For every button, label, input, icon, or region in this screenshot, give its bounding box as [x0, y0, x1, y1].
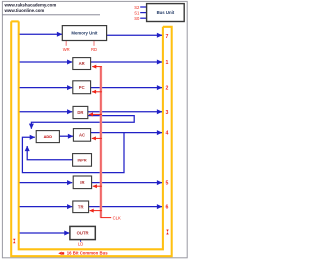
- svg-text:CLK: CLK: [113, 216, 121, 221]
- svg-text:16 Bit Common Bus: 16 Bit Common Bus: [67, 251, 108, 256]
- svg-text:5: 5: [166, 181, 169, 187]
- svg-text:www.tiuonline.com: www.tiuonline.com: [4, 8, 45, 13]
- svg-text:S1: S1: [134, 11, 140, 16]
- svg-text:S2: S2: [134, 5, 140, 10]
- svg-text:INPR: INPR: [78, 159, 87, 163]
- svg-text:DR: DR: [77, 110, 83, 115]
- svg-text:Bus Unit: Bus Unit: [157, 10, 175, 15]
- svg-text:S0: S0: [134, 16, 140, 21]
- svg-text:4: 4: [166, 131, 169, 137]
- svg-text:Memory Unit: Memory Unit: [71, 31, 98, 36]
- svg-text:AR: AR: [79, 61, 85, 66]
- svg-text:2: 2: [166, 86, 169, 92]
- svg-text:IR: IR: [80, 180, 84, 185]
- svg-text:AC: AC: [79, 133, 85, 138]
- svg-text:3: 3: [166, 110, 169, 116]
- svg-text:1: 1: [166, 60, 169, 66]
- svg-text:RD: RD: [91, 47, 97, 52]
- svg-text:TR: TR: [78, 204, 84, 209]
- svg-text:6: 6: [166, 205, 169, 211]
- svg-text:7: 7: [166, 34, 169, 40]
- svg-text:LD: LD: [78, 241, 83, 246]
- svg-text:PC: PC: [79, 85, 85, 90]
- svg-text:ADD: ADD: [44, 134, 53, 139]
- svg-text:www.rakshacademy.com: www.rakshacademy.com: [4, 2, 57, 7]
- svg-text:OUTR: OUTR: [77, 231, 89, 236]
- svg-text:WR: WR: [63, 47, 70, 52]
